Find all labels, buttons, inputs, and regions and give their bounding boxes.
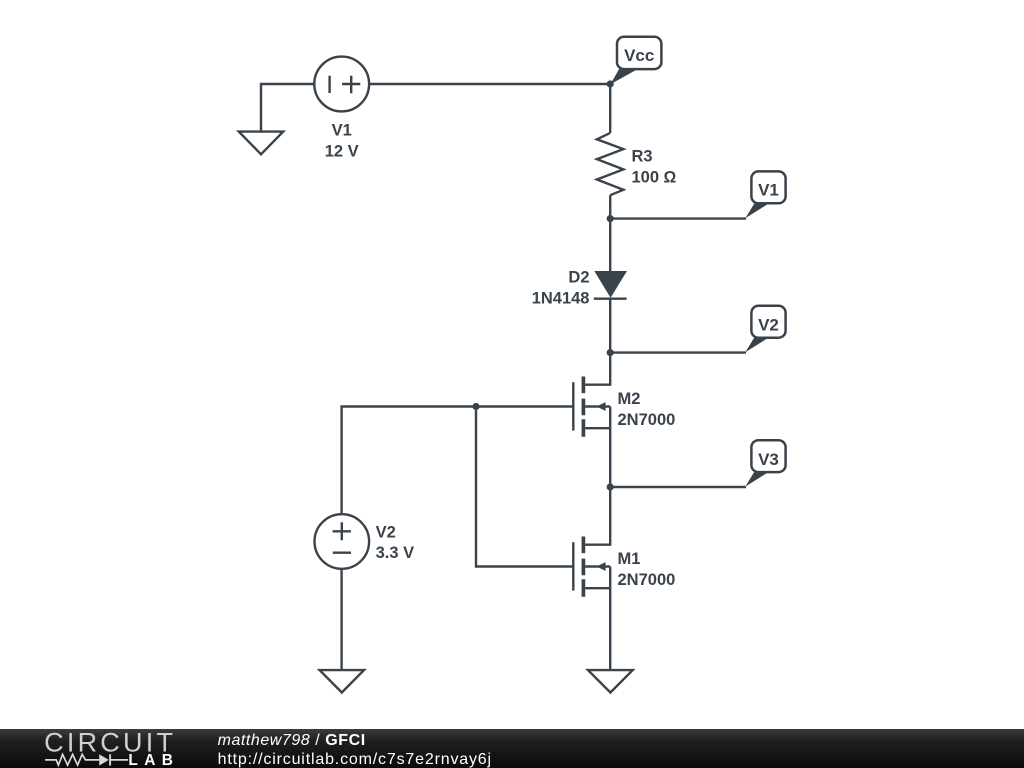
wire Vcc node down to R3: [609, 84, 611, 133]
node gate junction dot: [472, 403, 479, 410]
svg-text:V1: V1: [758, 181, 779, 200]
flag Vcc: [611, 37, 662, 85]
transistor M1: [573, 537, 610, 597]
svg-text:R3: R3: [632, 147, 653, 165]
voltage source V1: [314, 57, 369, 112]
wire V1 to Vcc node: [369, 83, 610, 85]
wire V1 left to ground: [261, 84, 314, 132]
svg-text:12 V: 12 V: [325, 142, 359, 160]
gate wire M2 to V2 source: [342, 407, 574, 515]
wire R3 to node: [609, 195, 611, 218]
svg-text:3.3 V: 3.3 V: [376, 544, 415, 562]
wire node to V1 flag: [610, 217, 746, 219]
svg-text:LAB: LAB: [128, 752, 173, 768]
footer bar: [0, 729, 1024, 768]
ground (V1): [239, 132, 283, 155]
svg-text:matthew798 / GFCI: matthew798 / GFCI: [218, 732, 366, 749]
flag V2: [745, 306, 785, 352]
node R3 bottom junction dot: [607, 215, 614, 222]
wire node down to D2: [609, 219, 611, 273]
svg-text:1N4148: 1N4148: [532, 289, 590, 307]
wire V2 node to V2 flag: [610, 351, 746, 353]
transistor M2: [573, 377, 610, 437]
node Vcc junction dot: [607, 80, 614, 87]
svg-text:V2: V2: [376, 524, 396, 542]
flag V1: [745, 171, 785, 218]
svg-text:http://circuitlab.com/c7s7e2rn: http://circuitlab.com/c7s7e2rnvay6j: [218, 751, 492, 768]
wire V2 node down to M2 drain: [585, 353, 610, 385]
footer logo squiggle: [45, 754, 128, 765]
ground (M1): [588, 670, 633, 692]
wire D2 to V2 node: [609, 299, 611, 353]
svg-text:2N7000: 2N7000: [618, 411, 676, 429]
gate branch wire to M1: [476, 407, 573, 567]
wire M1 source to ground: [609, 567, 611, 671]
diode D2: [594, 271, 627, 299]
ground (V2): [320, 670, 364, 692]
voltage source V2: [315, 514, 370, 569]
node V3 junction dot: [607, 483, 614, 490]
node V2 junction dot: [607, 349, 614, 356]
svg-text:Vcc: Vcc: [624, 46, 654, 65]
flag V3: [745, 440, 785, 486]
resistor R3: [597, 133, 624, 195]
wire V2 source to ground: [340, 569, 342, 670]
svg-text:D2: D2: [568, 268, 589, 286]
wire M2 body/source down to V3 node: [609, 407, 611, 488]
svg-text:V1: V1: [332, 121, 352, 139]
svg-text:V2: V2: [758, 315, 779, 334]
svg-text:M2: M2: [618, 390, 641, 408]
svg-text:M1: M1: [618, 550, 641, 568]
wire V3 node down to M1 drain: [585, 487, 610, 545]
svg-text:2N7000: 2N7000: [618, 571, 676, 589]
svg-text:V3: V3: [758, 450, 779, 469]
svg-text:100 Ω: 100 Ω: [632, 169, 677, 187]
wire V3 node to V3 flag: [610, 486, 746, 488]
